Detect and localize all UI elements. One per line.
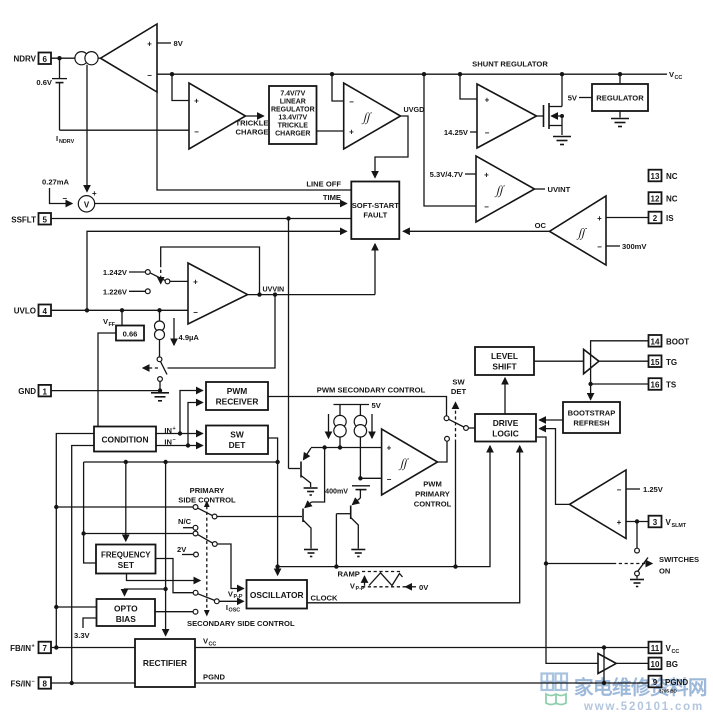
- svg-text:I: I: [56, 134, 58, 143]
- wire LINE OFF from A1 corner: [157, 91, 351, 190]
- svg-text:−: −: [32, 679, 35, 685]
- svg-text:4: 4: [42, 307, 47, 316]
- svg-text:DET: DET: [229, 440, 247, 450]
- wire GND line: [51, 381, 162, 392]
- svg-text:REGULATOR: REGULATOR: [596, 94, 644, 103]
- svg-text:OSC: OSC: [229, 608, 241, 614]
- svg-text:−: −: [62, 194, 67, 203]
- svg-text:CHARGER: CHARGER: [275, 131, 310, 138]
- arrow CS1: [328, 414, 330, 438]
- transistor Q1: [289, 448, 312, 487]
- label 8V stub: [157, 39, 184, 48]
- wire bootstrap refresh to drive logic: [540, 419, 564, 421]
- watermark grid icons: [542, 674, 568, 691]
- block linear regulator / trickle charger: [269, 86, 317, 144]
- svg-text:PWM SECONDARY CONTROL: PWM SECONDARY CONTROL: [317, 386, 426, 395]
- svg-text:5V: 5V: [372, 401, 382, 410]
- svg-text:+: +: [193, 278, 198, 287]
- svg-text:V: V: [84, 200, 90, 209]
- wire A8 output up to switch: [438, 441, 448, 462]
- svg-text:8V: 8V: [174, 39, 184, 48]
- svg-text:CLOCK: CLOCK: [311, 594, 339, 603]
- wire current source to op-amp A1 apex: [98, 57, 100, 59]
- svg-text:TS: TS: [666, 381, 677, 390]
- svg-text:SET: SET: [118, 560, 135, 570]
- label IN+: [164, 426, 175, 435]
- wire IN- to PWM receiver: [188, 403, 203, 446]
- svg-text:15: 15: [651, 358, 660, 367]
- svg-text:SWITCHES: SWITCHES: [659, 555, 699, 564]
- block SOFT-START FAULT: [351, 182, 399, 240]
- svg-text:14.25V: 14.25V: [444, 128, 469, 137]
- svg-text:+: +: [349, 128, 354, 137]
- label SWITCHES ON: [659, 555, 699, 576]
- svg-text:RAMP: RAMP: [338, 570, 360, 579]
- pin FS/IN- 8: [11, 677, 51, 689]
- svg-text:0.66: 0.66: [123, 330, 138, 339]
- node FB vertical junctions: [54, 505, 58, 650]
- wire TS to bootstrap refresh: [590, 384, 592, 400]
- svg-text:RECEIVER: RECEIVER: [216, 397, 259, 407]
- svg-text:REGULATOR: REGULATOR: [271, 107, 315, 114]
- block CONDITION: [94, 427, 156, 452]
- wire drive logic to level shift: [504, 378, 506, 414]
- svg-text:PWM: PWM: [423, 480, 442, 489]
- wire FS line to rectifier: [51, 682, 135, 684]
- wire A9 output to drive logic: [540, 429, 570, 505]
- label IN-: [164, 437, 175, 446]
- svg-text:ON: ON: [659, 567, 670, 576]
- pin 15 TG: [649, 355, 678, 367]
- svg-text:−: −: [387, 475, 392, 484]
- switch row2 to VPP: [84, 531, 244, 588]
- svg-text:www.520101.com: www.520101.com: [583, 701, 704, 713]
- svg-text:16: 16: [651, 381, 660, 390]
- wire y462 to rectifier arrow vertical: [163, 462, 167, 636]
- svg-text:11: 11: [651, 644, 660, 653]
- svg-text:FREQUENCY: FREQUENCY: [101, 551, 151, 560]
- svg-text:−: −: [597, 243, 602, 252]
- svg-text:+: +: [387, 444, 392, 453]
- wire oscillator top line to drive logic: [278, 446, 490, 569]
- svg-text:PGND: PGND: [665, 678, 688, 687]
- svg-text:OPTO: OPTO: [114, 604, 138, 614]
- label 3.3V stub: [74, 618, 97, 640]
- block LEVEL SHIFT: [475, 347, 534, 375]
- label 1.226V with contact: [103, 287, 150, 296]
- svg-text:−: −: [484, 203, 489, 212]
- svg-text:BOOTSTRAP: BOOTSTRAP: [568, 409, 616, 418]
- svg-text:FB/IN: FB/IN: [10, 644, 31, 653]
- op-amp A2 trickle charge: [189, 83, 246, 149]
- wire 5V rail: [334, 401, 382, 410]
- svg-text:300mV: 300mV: [622, 242, 647, 251]
- wire BG output to pin 10: [616, 662, 648, 664]
- svg-text:6: 6: [42, 55, 47, 64]
- svg-text:13.4V/7V: 13.4V/7V: [278, 115, 307, 122]
- svg-text:1: 1: [42, 387, 47, 396]
- wire VCC line to pin 11: [195, 645, 649, 649]
- node FS vertical junction: [70, 681, 74, 685]
- svg-text:CC: CC: [672, 649, 680, 655]
- svg-text:13: 13: [651, 172, 660, 181]
- wire INDRV horizontal: [60, 129, 190, 131]
- svg-text:−: −: [193, 308, 198, 317]
- wire rail to A2 plus input: [172, 74, 189, 100]
- svg-text:LEVEL: LEVEL: [491, 351, 518, 361]
- wire rail to A4 plus: [460, 74, 477, 99]
- label SW DET at switch: [451, 378, 467, 397]
- wire current source into V meter top: [87, 65, 97, 198]
- wire BOOT line: [591, 341, 649, 384]
- svg-text:+: +: [485, 96, 490, 105]
- current source I NDRV (double circle): [75, 52, 98, 65]
- svg-text:SW: SW: [452, 378, 465, 387]
- svg-text:+: +: [173, 426, 176, 432]
- pin 3 VSLMT: [649, 516, 687, 529]
- label VCC at rectifier: [203, 637, 216, 648]
- label 300mV stub: [606, 242, 647, 251]
- label INDRV: [56, 134, 75, 145]
- block OSCILLATOR: [247, 580, 308, 609]
- svg-text:UVVIN: UVVIN: [263, 286, 285, 294]
- wire A5 minus to rail: [424, 74, 476, 206]
- wire dashed switches on control: [546, 563, 652, 565]
- svg-text:10: 10: [651, 660, 660, 669]
- pin GND 1: [18, 385, 51, 397]
- transistor Q3: [336, 490, 360, 549]
- label VCC rail: [669, 70, 682, 81]
- ground regulator: [611, 111, 629, 127]
- transistor Q2: [303, 448, 325, 549]
- svg-text:3705 BD: 3705 BD: [659, 689, 678, 694]
- svg-text:PWM: PWM: [227, 386, 247, 396]
- pin 12 NC: [649, 192, 678, 204]
- pin 2 IS: [649, 212, 675, 224]
- block RECTIFIER: [135, 639, 195, 687]
- watermark book icon: [546, 694, 566, 705]
- wire A4 out to mosfet gate: [537, 115, 544, 117]
- label 0V arrow: [406, 583, 430, 592]
- svg-text:5: 5: [42, 216, 47, 225]
- wire condition IN- left to FS vertical: [72, 446, 94, 684]
- battery 400mV: [325, 476, 370, 495]
- wire UVGD output to soft-start top: [375, 116, 408, 178]
- svg-text:IS: IS: [666, 214, 674, 223]
- pin UVLO 4: [14, 305, 51, 317]
- svg-text:GND: GND: [18, 387, 36, 396]
- label 2V with contact: [177, 545, 198, 557]
- buffer BG driver: [598, 654, 616, 674]
- svg-text:CONTROL: CONTROL: [414, 500, 452, 509]
- svg-text:−: −: [349, 98, 354, 107]
- wire trickle block to A3 plus: [317, 130, 344, 132]
- ground switches on: [630, 580, 644, 587]
- svg-text:REFRESH: REFRESH: [573, 419, 609, 428]
- pin FB/IN+ 7: [10, 642, 51, 654]
- svg-text:UVLO: UVLO: [14, 307, 36, 316]
- svg-text:PRIMARY: PRIMARY: [190, 486, 225, 495]
- wire I NDRV sense (battery to A2 minus): [59, 83, 61, 131]
- svg-text:BG: BG: [666, 660, 678, 669]
- wire SSFLT to soft-start: [51, 216, 351, 220]
- wire level shift to TG driver: [534, 360, 584, 362]
- block PWM RECEIVER: [206, 382, 268, 410]
- block DRIVE LOGIC: [475, 414, 536, 442]
- svg-text:+: +: [597, 214, 602, 223]
- svg-text:NC: NC: [666, 195, 678, 204]
- wire main top rail to VCC: [157, 72, 667, 76]
- svg-text:14: 14: [651, 338, 660, 347]
- svg-text:UVINT: UVINT: [548, 185, 571, 194]
- wire UVVIN up into soft-start bottom: [374, 244, 376, 295]
- pin 16 TS: [649, 378, 677, 390]
- wire UVLO line: [51, 308, 188, 312]
- svg-text:PGND: PGND: [203, 673, 225, 682]
- op-amp A3 UVGD comparator: [344, 83, 401, 149]
- wire y462 left leg down to freq set input: [84, 462, 96, 563]
- pin 13 NC: [649, 170, 678, 182]
- svg-text:1.25V: 1.25V: [643, 485, 664, 494]
- op-amp A5 UVINT comparator: [476, 156, 535, 222]
- svg-text:P-P: P-P: [234, 594, 243, 600]
- ground Q1: [304, 488, 318, 495]
- wire A9 plus to pin 3: [626, 519, 649, 523]
- block SW DET: [206, 426, 268, 455]
- svg-text:−: −: [194, 128, 199, 137]
- svg-text:+: +: [484, 171, 489, 180]
- svg-text:TG: TG: [666, 358, 677, 367]
- block BOOTSTRAP REFRESH: [563, 402, 620, 433]
- wire A8 minus input: [360, 477, 381, 479]
- label UVINT stub: [535, 185, 571, 194]
- wire dashed SW DET control: [455, 403, 457, 567]
- ground mosfet source: [553, 137, 571, 145]
- wire switch control from UVVIN: [168, 295, 276, 368]
- wire UVVIN feedback to threshold switch: [161, 247, 260, 295]
- svg-text:SSFLT: SSFLT: [11, 215, 36, 224]
- wire IS pin to A6 plus: [606, 217, 649, 219]
- svg-text:1.242V: 1.242V: [103, 268, 128, 277]
- wire CLOCK to drive logic: [307, 446, 520, 603]
- current source 4.9uA: [155, 310, 165, 357]
- svg-text:NC: NC: [666, 172, 678, 181]
- svg-text:−: −: [173, 437, 176, 443]
- svg-text:7: 7: [42, 644, 47, 653]
- svg-text:2V: 2V: [177, 545, 187, 554]
- svg-text:SECONDARY SIDE CONTROL: SECONDARY SIDE CONTROL: [187, 619, 295, 628]
- wire freq set bottom to selector arrow: [127, 574, 201, 581]
- label 5.3V/4.7V stub: [430, 170, 476, 179]
- svg-text:CC: CC: [675, 75, 683, 81]
- wire TIME from V meter to soft-start: [95, 203, 347, 205]
- svg-text:N/C: N/C: [178, 517, 192, 526]
- meter V1: [78, 196, 94, 212]
- wire freq set to row4 contact: [156, 559, 199, 596]
- label 14.25V stub: [444, 128, 477, 137]
- switch PWM select: [444, 416, 475, 441]
- svg-text:SOFT-START: SOFT-START: [352, 201, 399, 210]
- wire SW DET output down: [268, 438, 280, 575]
- svg-text:8: 8: [42, 680, 47, 689]
- svg-text:BOOT: BOOT: [666, 338, 689, 347]
- svg-text:LINE OFF: LINE OFF: [306, 180, 341, 189]
- op-amp A4 shunt regulator: [477, 84, 537, 148]
- svg-text:1.226V: 1.226V: [103, 287, 128, 296]
- wire UVLO net up to soft-start input: [87, 231, 347, 310]
- svg-text:SW: SW: [230, 430, 244, 440]
- svg-text:9: 9: [653, 678, 658, 687]
- svg-text:−: −: [617, 486, 622, 495]
- svg-text:3.3V: 3.3V: [74, 631, 91, 640]
- svg-text:4.9µA: 4.9µA: [179, 333, 200, 342]
- svg-text:UVGD: UVGD: [404, 105, 425, 114]
- pin 14 BOOT: [649, 335, 690, 347]
- svg-text:2: 2: [653, 214, 658, 223]
- svg-text:NDRV: NDRV: [13, 55, 36, 64]
- svg-text:TRICKLE: TRICKLE: [278, 123, 309, 130]
- label 5V stub: [568, 94, 592, 103]
- wire IN+ to PWM receiver: [180, 391, 203, 434]
- svg-text:7.4V/7V: 7.4V/7V: [280, 91, 305, 98]
- svg-text:OC: OC: [535, 221, 547, 230]
- svg-text:+: +: [32, 644, 35, 650]
- wire to OPTO BIAS top arrow: [125, 589, 166, 596]
- wire dashed selector vertical: [204, 501, 210, 617]
- switch UVLO enable: [157, 357, 167, 382]
- svg-text:NDRV: NDRV: [59, 139, 75, 145]
- wire UVLO line to 0.66 block: [121, 310, 123, 325]
- waveform ramp: [362, 572, 406, 587]
- svg-text:5.3V/4.7V: 5.3V/4.7V: [430, 170, 464, 179]
- wire Q3 base down to oscillator line: [335, 514, 337, 567]
- pin 11 VCC: [649, 642, 680, 655]
- switch row4 to IOSC: [198, 594, 244, 604]
- current source CS2: [354, 405, 366, 479]
- wire condition IN+ left to FB vertical: [56, 434, 94, 648]
- label IOSC: [226, 603, 240, 614]
- svg-text:0.27mA: 0.27mA: [42, 178, 70, 187]
- svg-text:CONDITION: CONDITION: [102, 435, 149, 445]
- wire opto bias to bottom contact: [155, 609, 198, 614]
- block 0.66: [116, 326, 144, 341]
- node row2 junction: [81, 531, 85, 535]
- transistor M1 shunt mosfet: [544, 74, 565, 135]
- label VFF: [103, 317, 116, 328]
- svg-text:PRIMARY: PRIMARY: [415, 490, 450, 499]
- battery 0.6V: [36, 58, 67, 87]
- wire IN- to SW DET: [156, 443, 203, 447]
- pin SSFLT 5: [11, 213, 51, 225]
- svg-text:12: 12: [651, 195, 660, 204]
- wire UVVIN output line: [248, 292, 376, 296]
- svg-text:TRICKLE: TRICKLE: [236, 119, 269, 128]
- svg-text:OSCILLATOR: OSCILLATOR: [250, 590, 304, 600]
- svg-text:+: +: [92, 189, 97, 198]
- svg-text:FAULT: FAULT: [363, 211, 387, 220]
- label N/C with contact: [178, 517, 198, 530]
- svg-text:BIAS: BIAS: [116, 614, 136, 624]
- wire BG bootstrap vertical: [603, 648, 605, 684]
- svg-text:+: +: [617, 518, 622, 527]
- block FREQUENCY SET: [96, 545, 156, 574]
- arrow 4.9uA: [174, 318, 199, 345]
- label VP-P at ramp: [350, 582, 365, 593]
- wire rail to A3 minus input: [332, 74, 344, 101]
- switch UVLO threshold select: [150, 273, 188, 284]
- wire dashed switch control arrow: [143, 367, 158, 369]
- svg-text:+: +: [194, 97, 199, 106]
- wire PGND line to pin 9: [195, 681, 649, 685]
- wire A2 output arrow to trickle block: [246, 115, 264, 117]
- wire rail to regulator top: [619, 74, 621, 84]
- pin 10 BG: [649, 658, 679, 670]
- switch SWITCHES ON: [635, 522, 648, 579]
- ground Q3: [351, 550, 365, 557]
- svg-text:CHARGE: CHARGE: [236, 128, 269, 137]
- block REGULATOR: [592, 84, 648, 111]
- label PWM PRIMARY CONTROL: [414, 480, 452, 509]
- wire TS line with junction: [588, 382, 648, 386]
- svg-text:SHUNT REGULATOR: SHUNT REGULATOR: [472, 60, 548, 69]
- buffer TG driver: [584, 349, 599, 373]
- svg-text:5V: 5V: [568, 94, 578, 103]
- svg-text:DET: DET: [451, 387, 467, 396]
- svg-text:3: 3: [653, 518, 658, 527]
- ground Q2: [304, 550, 318, 557]
- op-amp A6 OC comparator (points left): [550, 196, 607, 265]
- current source CS1: [334, 405, 346, 448]
- wire PWM secondary control line: [268, 397, 447, 416]
- svg-text:0.6V: 0.6V: [36, 78, 53, 87]
- op-amp A7 UVLO comparator: [188, 263, 248, 324]
- pin 9 PGND: [649, 676, 689, 688]
- wire NDRV to current source: [51, 56, 75, 60]
- wire FB line to rectifier: [51, 647, 135, 649]
- svg-text:+: +: [147, 40, 152, 49]
- op-amp A8 PWM primary comparator: [382, 429, 438, 495]
- label 1.25V stub: [626, 485, 664, 494]
- wire OC output to soft-start: [403, 230, 549, 232]
- wire y462 to FREQUENCY SET top arrow: [125, 462, 127, 541]
- label PRIMARY SIDE CONTROL: [178, 486, 236, 505]
- op-amp A9 switch current limit (points left): [570, 470, 627, 539]
- pin NDRV 6: [13, 53, 51, 65]
- block OPTO BIAS: [97, 599, 156, 626]
- svg-text:FF: FF: [109, 322, 116, 328]
- label VP-P: [228, 590, 243, 601]
- wire 0.27mA into V meter: [50, 188, 73, 204]
- label 1.242V with contact: [103, 268, 150, 277]
- wire 0.66 to condition block: [98, 333, 116, 427]
- svg-text:FS/IN: FS/IN: [11, 679, 32, 688]
- wire FB net to opto bias: [56, 606, 96, 608]
- svg-text:LINEAR: LINEAR: [280, 99, 306, 106]
- svg-text:LOGIC: LOGIC: [492, 429, 519, 439]
- svg-text:TIME: TIME: [323, 193, 341, 202]
- wire SSFLT net to Q1 base: [288, 219, 290, 469]
- svg-text:−: −: [485, 129, 490, 138]
- wire drive logic output down (bottom gate net): [536, 437, 598, 663]
- svg-text:400mV: 400mV: [325, 488, 348, 496]
- wire distribution line y462: [84, 460, 278, 464]
- arrow CS2: [371, 414, 373, 438]
- wire IN+ to SW DET: [156, 431, 203, 435]
- svg-text:0V: 0V: [419, 583, 429, 592]
- svg-text:CC: CC: [209, 641, 217, 647]
- op-amp A1 (NDRV driver, points left): [101, 24, 158, 92]
- ground main: [151, 393, 169, 401]
